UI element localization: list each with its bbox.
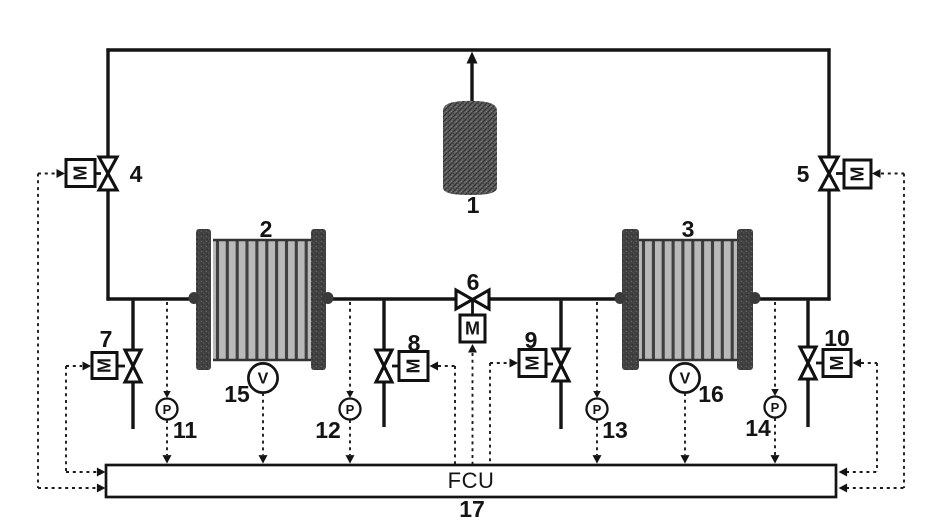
control signal to M9 (dashed from FCU): [490, 359, 518, 465]
svg-text:P: P: [163, 402, 172, 417]
svg-text:9: 9: [525, 327, 538, 353]
svg-text:1: 1: [467, 192, 480, 218]
control signal to M10 (dashed from FCU): [839, 359, 877, 477]
valve 9 (motorized, branch): [553, 349, 569, 381]
valve 5 (motorized, on right riser): [820, 157, 838, 190]
svg-text:13: 13: [602, 417, 628, 443]
heat exchanger 3 left end cap: [622, 229, 639, 370]
label 4: [130, 161, 143, 187]
motor box M6: [460, 300, 485, 342]
svg-text:4: 4: [130, 161, 143, 187]
svg-text:6: 6: [467, 269, 480, 295]
heat exchanger 3 right end cap: [737, 229, 753, 370]
svg-text:M: M: [848, 167, 868, 182]
label 10: [824, 325, 850, 351]
svg-text:3: 3: [682, 216, 695, 242]
wire: pipe exchanger 2 to valve 6: [331, 297, 457, 300]
label 7: [100, 326, 113, 352]
svg-text:8: 8: [408, 330, 421, 356]
svg-text:FCU: FCU: [448, 468, 495, 493]
temperature sensor V16 with signal line to FCU: [670, 363, 699, 463]
label 8: [408, 330, 421, 356]
valve 6 (motorized, on center pipe): [456, 290, 489, 309]
heat exchanger 2 plate body: [213, 240, 311, 360]
pressure sensor P14 with signal line to FCU: [765, 302, 786, 464]
svg-text:M: M: [465, 319, 480, 339]
wire: top header pipe: [106, 48, 830, 51]
valve 7 (motorized, left branch): [125, 350, 141, 382]
pressure sensor P12 with signal line to FCU: [340, 302, 361, 464]
valve 10 (motorized, right branch): [800, 347, 816, 379]
motor box M9: [519, 350, 553, 377]
svg-text:7: 7: [100, 326, 113, 352]
wire: left riser pipe: [106, 48, 109, 300]
svg-text:2: 2: [260, 216, 273, 242]
control signal to M8 (dashed from FCU): [430, 362, 456, 465]
wire: valve 8 branch pipe: [382, 301, 385, 427]
label 6: [467, 269, 480, 295]
svg-text:M: M: [404, 359, 424, 374]
control signal to M4 (dashed from FCU): [38, 169, 105, 493]
pressure sensor P11 with signal line to FCU: [157, 302, 178, 464]
svg-text:V: V: [680, 371, 691, 388]
heat exchanger 2 right port nipple: [323, 292, 334, 304]
motor box M8: [392, 352, 428, 381]
label 17: [459, 496, 485, 522]
valve 8 (motorized, branch): [376, 350, 392, 382]
control signal to M5 (dashed from FCU): [839, 169, 904, 493]
temperature sensor V15 with signal line to FCU: [248, 363, 277, 463]
label 1: [467, 192, 480, 218]
heat exchanger 3 left port nipple: [615, 292, 626, 304]
label 16: [698, 381, 724, 407]
svg-text:P: P: [771, 400, 780, 415]
heat exchanger 3 right port nipple: [750, 292, 761, 304]
control signal to M7 (dashed from FCU): [66, 362, 105, 477]
label 9: [525, 327, 538, 353]
wire: pipe exchanger 3 to right riser: [760, 297, 831, 300]
svg-text:5: 5: [797, 161, 810, 187]
valve 4 (motorized, on left riser): [99, 157, 117, 190]
svg-text:P: P: [346, 402, 355, 417]
pressure sensor P13 with signal line to FCU: [587, 302, 608, 464]
label 15: [224, 381, 250, 407]
svg-text:10: 10: [824, 325, 850, 351]
FCU controller box 17: [106, 465, 836, 497]
label 14: [745, 415, 771, 441]
control signal to M6 (dashed from FCU): [468, 344, 477, 464]
svg-text:16: 16: [698, 381, 724, 407]
svg-text:15: 15: [224, 381, 250, 407]
heat exchanger 2 right end cap: [311, 229, 326, 370]
motor box M4: [66, 160, 101, 187]
svg-text:M: M: [523, 356, 543, 371]
svg-text:14: 14: [745, 415, 771, 441]
label 13: [602, 417, 628, 443]
tank 1 (cylinder): [443, 101, 497, 195]
motor box M5: [836, 160, 871, 188]
svg-text:M: M: [827, 356, 847, 371]
wire: valve 10 branch pipe: [806, 301, 809, 427]
wire: pipe valve 6 to exchanger 3: [488, 297, 618, 300]
svg-text:V: V: [258, 371, 269, 388]
svg-text:11: 11: [173, 417, 198, 443]
wire: right riser pipe: [827, 48, 830, 300]
wire: left horizontal pipe to exchanger 2: [106, 297, 191, 300]
svg-text:17: 17: [459, 496, 485, 522]
svg-text:12: 12: [315, 417, 341, 443]
wire: valve 7 branch pipe: [131, 301, 134, 429]
label 3: [682, 216, 695, 242]
wire: valve 9 branch pipe: [559, 301, 562, 429]
svg-text:P: P: [593, 402, 602, 417]
heat exchanger 2 left port nipple: [189, 292, 200, 304]
motor box M7: [92, 353, 125, 379]
label 2: [260, 216, 273, 242]
tank 1 vent line with up arrow: [467, 52, 478, 111]
label 5: [797, 161, 810, 187]
heat exchanger 3 plate body: [639, 240, 737, 360]
heat exchanger 2 left end cap: [196, 229, 211, 370]
motor box M10: [816, 350, 851, 377]
svg-text:M: M: [95, 358, 115, 373]
svg-text:M: M: [71, 166, 91, 181]
label 12: [315, 417, 341, 443]
label 11: [173, 417, 198, 443]
